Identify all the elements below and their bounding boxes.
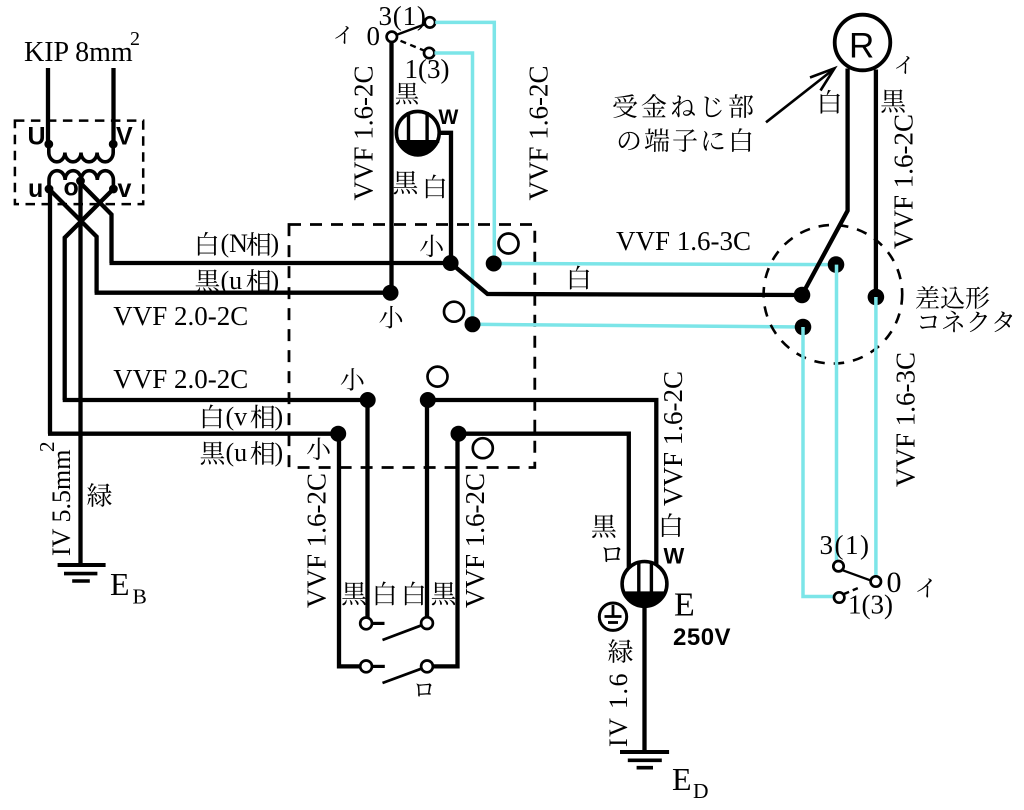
svg-text:(u: (u [226, 438, 248, 467]
svg-text:VVF 1.6-3C: VVF 1.6-3C [616, 226, 751, 256]
wire white v-phase horizontal [63, 398, 368, 402]
label kuro at outlet E [592, 515, 616, 538]
svg-text:1(3): 1(3) [405, 54, 450, 84]
svg-text:E: E [672, 761, 692, 797]
transformer T1 primary terminal V [109, 140, 118, 149]
label small ring sleeve 2 [379, 306, 402, 329]
svg-text:VVF 1.6-2C: VVF 1.6-2C [302, 473, 332, 608]
node connector traveler lower [465, 316, 481, 332]
wire color labels kuro shiro shiro kuro [342, 582, 366, 605]
switch イ lower terminal 0 [871, 576, 881, 586]
label white N-phase [198, 232, 217, 256]
wire primary lead U [46, 68, 50, 146]
cyan wire lamp R black to lower switch 0 [874, 297, 878, 576]
label small ring sleeve 4 [307, 437, 330, 460]
svg-text:u: u [28, 175, 43, 203]
node ring-sleeve white v upper-left [360, 392, 376, 408]
svg-text:D: D [693, 779, 709, 803]
transformer T1 dashed enclosure [15, 121, 143, 205]
svg-text:B: B [133, 585, 147, 609]
ceiling outlet blade slots [407, 112, 410, 142]
wire black u-phase horizontal top [95, 291, 391, 295]
wire from v diagonal crossing to white v-phase line [65, 189, 114, 400]
label kuro below outlet [394, 171, 418, 194]
svg-text:E: E [110, 566, 130, 602]
svg-text:E: E [674, 587, 695, 624]
wire from center tap o to N-phase white line [81, 183, 112, 263]
wire white v to upper RO switch left [365, 400, 369, 618]
switch RO lower blade [383, 668, 423, 683]
svg-text:v: v [118, 175, 132, 203]
svg-text:IV 5.5mm: IV 5.5mm [47, 450, 76, 556]
connector mark circle 3 [428, 367, 448, 387]
svg-text:(N: (N [221, 229, 249, 258]
cyan traveler wire from 3(1) to box [435, 22, 494, 263]
connector label sashikomi-gata [916, 286, 939, 309]
switch RO upper terminal lead [372, 622, 384, 625]
wire black from switch 0 down to junction box [389, 42, 393, 293]
svg-text:1(3): 1(3) [848, 590, 893, 620]
switch イ lower blade [843, 570, 872, 580]
svg-text:IV 1.6: IV 1.6 [604, 672, 633, 747]
wire primary lead V [111, 68, 115, 146]
lamp receptacle R body [835, 15, 891, 71]
connector mark circle 2 [444, 302, 464, 322]
label shiro at outlet E [662, 513, 681, 537]
transformer T1 secondary terminal u [45, 185, 54, 194]
switch イ terminal 0 circle [387, 32, 397, 42]
ground wire from outlet E down [642, 606, 646, 752]
cyan traveler wire from 1(3) to box [435, 53, 473, 324]
switch イ lower dashed throw [844, 588, 859, 594]
switch label RO bottom [416, 683, 431, 696]
switch RO upper left terminal [360, 618, 372, 630]
label small ring sleeve 3 [341, 368, 364, 391]
svg-text:U: U [28, 123, 46, 151]
transformer T1 primary terminal U [44, 140, 53, 149]
annotation text ukegane line1 [613, 94, 637, 118]
switch RO lower terminal lead [372, 665, 385, 668]
outlet E chord line [623, 591, 666, 594]
switch イ dashed throw to 1(3) [401, 41, 424, 51]
outlet E blade slots [637, 563, 640, 595]
svg-text:2: 2 [35, 442, 59, 453]
node connector black u lower-right [451, 426, 467, 442]
switch circuit label イ bottom [917, 579, 932, 598]
wire from center tap o down to ground EB [78, 181, 82, 565]
svg-text:3(1): 3(1) [820, 530, 871, 560]
label RO at outlet E [603, 547, 620, 562]
connector mark circle 4 [473, 438, 493, 458]
outlet E 250V body [622, 562, 667, 607]
node connector cyan lower [795, 319, 812, 336]
ground ED symbol [620, 750, 669, 754]
wire white N-phase horizontal [110, 261, 451, 265]
label black u-phase bottom [201, 441, 225, 464]
label white v-phase [203, 405, 222, 429]
wire white from lamp R to connector [802, 69, 848, 296]
switch RO upper blade [383, 625, 422, 640]
connector mark circle 1 [499, 234, 519, 254]
annotation arrow to lamp R shell terminal [766, 71, 832, 123]
cyan wire connector to lower switch 3(1) [835, 265, 839, 562]
wire from u down to black u-phase bottom line [48, 189, 52, 434]
svg-text:R: R [849, 27, 874, 66]
wire black u to lower RO switch right [433, 434, 458, 667]
svg-text:(u: (u [221, 266, 243, 295]
switch イ lower terminal 1(3) [834, 592, 844, 602]
transformer T1 secondary winding [49, 171, 113, 189]
switch RO lower right terminal [421, 661, 433, 673]
node ring-sleeve white N / outlet white [443, 255, 459, 271]
wire black u to lower RO switch left [339, 434, 360, 667]
outlet E bottom filled segment [625, 593, 665, 605]
svg-text:250V: 250V [673, 624, 731, 651]
svg-text:VVF 1.6-2C: VVF 1.6-2C [889, 114, 919, 249]
svg-text:): ) [275, 438, 284, 467]
green wire label midori [87, 483, 111, 507]
label shiro at lamp R [821, 90, 840, 114]
wire black from lamp R to connector node [874, 70, 878, 298]
switch イ lower terminal 3(1) [833, 561, 843, 571]
wire white v to upper RO switch right [425, 400, 429, 618]
wire white from outlet W terminal down to junction box [439, 133, 451, 263]
ground EB symbol [58, 563, 106, 567]
connector label konekuta [920, 316, 937, 329]
node connector black lamp R [868, 289, 885, 306]
svg-text:VVF 1.6-2C: VVF 1.6-2C [349, 65, 379, 200]
node connector white v upper-right [420, 392, 436, 408]
push-in connector dashed circle [764, 225, 903, 364]
switch RO upper right terminal [421, 617, 433, 629]
ceiling outlet chord line [396, 140, 439, 143]
label black u-phase top [196, 269, 220, 292]
svg-text:VVF 2.0-2C: VVF 2.0-2C [113, 364, 248, 394]
label small ring sleeve 1 [420, 235, 443, 258]
wire from u diagonal crossing to black u-phase line [49, 189, 97, 293]
switch イ blade from 0 to 3(1) [397, 24, 425, 35]
cyan wire connector to lower switch 1(3) [803, 327, 834, 597]
transformer T1 secondary terminal v [109, 185, 118, 194]
svg-text:): ) [275, 402, 284, 431]
wire black u-phase horizontal bottom [48, 432, 338, 436]
label shiro below outlet [426, 175, 445, 199]
switch RO lower left terminal [360, 661, 372, 673]
node connector white lamp R [794, 287, 811, 304]
wire white v to 250V outlet [428, 400, 657, 564]
label kuro above outlet [396, 82, 418, 104]
svg-text:0: 0 [367, 21, 381, 51]
svg-text:VVF 1.6-2C: VVF 1.6-2C [658, 371, 688, 506]
svg-text:2: 2 [130, 28, 140, 50]
svg-text:VVF 1.6-2C: VVF 1.6-2C [460, 473, 490, 608]
switch circuit label イ at lamp R [896, 56, 910, 74]
svg-text:3(1): 3(1) [379, 1, 427, 31]
node ring-sleeve black u lower-left [330, 426, 346, 442]
switch circuit label イ top [335, 26, 349, 44]
svg-text:o: o [64, 174, 79, 202]
svg-text:V: V [116, 123, 133, 151]
junction-box dashed outline [289, 225, 535, 468]
svg-text:): ) [271, 266, 280, 295]
svg-text:(v: (v [226, 402, 248, 431]
svg-text:KIP 8mm: KIP 8mm [24, 37, 133, 68]
svg-text:W: W [664, 544, 685, 569]
cyan traveler horizontal to connector lower [473, 324, 804, 327]
node connector cyan upper [828, 256, 845, 273]
ceiling outlet symbol body [396, 111, 439, 154]
node ring-sleeve black u / switch feed [383, 285, 399, 301]
label shiro on white jumper to lamp R [570, 266, 589, 290]
annotation text ukegane line2 [619, 132, 640, 150]
switch イ terminal 1(3) circle [424, 48, 434, 58]
switch イ terminal 3(1) circle [425, 17, 435, 27]
svg-text:W: W [439, 106, 459, 129]
svg-text:VVF 1.6-3C: VVF 1.6-3C [890, 352, 920, 487]
transformer T1 primary winding [49, 144, 113, 162]
wire black u to 250V outlet [459, 434, 629, 568]
cyan traveler horizontal to connector upper [494, 264, 836, 265]
svg-text:VVF 1.6-2C: VVF 1.6-2C [524, 65, 554, 200]
transformer T1 secondary center tap o [76, 177, 85, 186]
svg-text:VVF 2.0-2C: VVF 2.0-2C [113, 301, 248, 331]
label kuro at lamp R [881, 89, 905, 112]
outlet E grounding terminal symbol [599, 603, 626, 630]
svg-text:): ) [271, 229, 280, 258]
wire white jumper from N node to lamp R white line [451, 263, 802, 295]
node connector traveler upper [486, 256, 502, 272]
label midori at outlet E [608, 639, 632, 663]
ceiling outlet bottom filled segment [397, 142, 438, 157]
